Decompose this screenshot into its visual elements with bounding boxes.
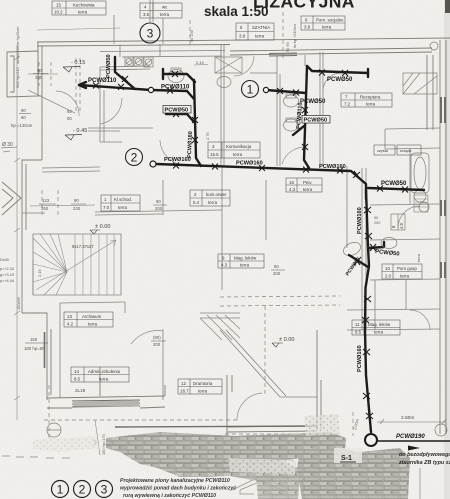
window bars <box>72 53 445 441</box>
stairs room box <box>33 234 121 295</box>
svg-text:200: 200 <box>153 342 161 347</box>
svg-text:do bezodpływowego: do bezodpływowego <box>399 452 450 458</box>
svg-text:terra: terra <box>208 200 218 205</box>
level marks <box>63 60 295 347</box>
svg-text:PCWØ50: PCWØ50 <box>327 77 353 83</box>
svg-text:9x17.37x27: 9x17.37x27 <box>72 244 94 249</box>
right outer wall <box>439 40 441 434</box>
wc/corridor verticals <box>220 44 222 165</box>
svg-text:123: 123 <box>42 198 50 203</box>
svg-text:terra: terra <box>400 274 410 279</box>
svg-text:terra: terra <box>99 377 109 382</box>
stairs treads <box>33 234 116 295</box>
svg-text:Receptura: Receptura <box>360 95 381 100</box>
svg-text:2.50m: 2.50m <box>401 415 414 421</box>
svg-text:urządz: urządz <box>400 149 411 153</box>
S-1 manhole <box>365 434 377 446</box>
svg-text:12: 12 <box>181 381 186 386</box>
svg-text:Dx90: Dx90 <box>0 258 9 262</box>
svg-text:(90): (90) <box>153 335 161 340</box>
door swing arcs <box>28 56 430 420</box>
riser circles <box>126 23 259 166</box>
svg-text:SZATNIA: SZATNIA <box>252 25 270 30</box>
svg-text:2: 2 <box>79 483 86 497</box>
svg-text:10.2: 10.2 <box>54 10 63 15</box>
svg-text:11: 11 <box>355 322 360 327</box>
svg-text:3.8: 3.8 <box>239 34 246 39</box>
svg-text:4.3: 4.3 <box>289 187 296 192</box>
svg-text:terra: terra <box>374 330 384 335</box>
svg-text:2.0: 2.0 <box>385 274 392 279</box>
svg-text:200: 200 <box>374 221 380 225</box>
svg-text:15: 15 <box>56 3 61 8</box>
svg-text:2.19: 2.19 <box>37 269 42 277</box>
svg-text:8.5: 8.5 <box>355 330 362 335</box>
svg-text:wzmocnienie hp20cm: wzmocnienie hp20cm <box>15 27 20 64</box>
svg-text:4.3: 4.3 <box>221 263 228 268</box>
left outside dimension chain <box>14 28 120 455</box>
bottom-right notes <box>398 452 450 466</box>
svg-text:lw kp +210cm: lw kp +210cm <box>292 24 297 48</box>
svg-text:14: 14 <box>74 369 79 374</box>
svg-text:Admin.szkolenia: Admin.szkolenia <box>88 369 121 374</box>
svg-text:13: 13 <box>67 314 72 319</box>
svg-text:150: 150 <box>30 337 38 342</box>
svg-text:PCWØ50: PCWØ50 <box>381 181 407 187</box>
svg-text:S-1: S-1 <box>341 455 352 462</box>
svg-text:15.5: 15.5 <box>210 152 219 157</box>
svg-text:terra: terra <box>240 263 250 268</box>
svg-text:wyprowadzić ponad dach budynku: wyprowadzić ponad dach budynku i zakończ… <box>120 486 236 492</box>
svg-text:Komunikacja: Komunikacja <box>226 144 252 149</box>
svg-text:2.19: 2.19 <box>196 60 205 65</box>
svg-text:3: 3 <box>101 483 108 497</box>
svg-text:hp =140cm: hp =140cm <box>11 123 33 128</box>
hatch boxes (shafts) <box>200 57 437 340</box>
svg-text:90: 90 <box>274 264 279 269</box>
svg-text:terra: terra <box>78 10 88 15</box>
svg-text:200: 200 <box>35 75 43 80</box>
svg-text:Pniv: Pniv <box>303 180 312 185</box>
svg-text:908 hp=210: 908 hp=210 <box>15 67 20 88</box>
svg-text:Kuchownia: Kuchownia <box>73 3 95 8</box>
svg-text:PCWØ160: PCWØ160 <box>187 131 194 158</box>
svg-text:180 hp=90: 180 hp=90 <box>24 346 45 351</box>
svg-text:Pom. socjalne: Pom. socjalne <box>316 18 344 23</box>
svg-text:kom.orwer: kom.orwer <box>206 192 227 197</box>
bottom mid rooms <box>220 330 280 397</box>
svg-text:2: 2 <box>131 151 138 165</box>
svg-text:2.75: 2.75 <box>205 132 210 140</box>
svg-text:1: 1 <box>247 83 254 97</box>
svg-text:PCWØ160: PCWØ160 <box>236 161 263 167</box>
svg-text:3.9: 3.9 <box>304 25 311 30</box>
right wing rooms <box>346 166 348 248</box>
svg-text:90: 90 <box>374 216 378 220</box>
svg-text:4.2: 4.2 <box>67 322 74 327</box>
pipe tick crosses <box>93 70 408 420</box>
svg-text:Kl.schod.: Kl.schod. <box>114 197 132 202</box>
svg-text:10: 10 <box>385 266 390 271</box>
svg-text:terra: terra <box>198 389 208 394</box>
svg-text:PCWØ110: PCWØ110 <box>88 78 117 84</box>
svg-text:terra: terra <box>118 205 128 210</box>
svg-text:3.5: 3.5 <box>143 12 150 17</box>
interior walls top-left block <box>99 90 101 142</box>
svg-text:8.5: 8.5 <box>74 377 81 382</box>
svg-text:czysta: czysta <box>377 149 389 153</box>
svg-text:Archiwum: Archiwum <box>82 314 102 319</box>
vestibule box top-left <box>7 51 38 97</box>
svg-text:terra: terra <box>366 102 376 107</box>
svg-text:Mag. leków: Mag. leków <box>368 322 391 327</box>
extra right-wing details <box>391 214 405 230</box>
svg-text:PCWØ50: PCWØ50 <box>165 108 189 114</box>
svg-text:terra: terra <box>416 253 421 262</box>
svg-text:Mag. leków: Mag. leków <box>234 256 257 261</box>
svg-text:- 0.45: - 0.45 <box>73 128 87 134</box>
dashed construction lines <box>39 12 353 440</box>
svg-text:PCWØ50: PCWØ50 <box>300 99 326 105</box>
left outer wall <box>37 42 39 96</box>
svg-text:7.0: 7.0 <box>103 205 110 210</box>
svg-text:60: 60 <box>21 115 26 120</box>
svg-text:90: 90 <box>74 198 79 203</box>
svg-text:terra: terra <box>255 34 265 39</box>
svg-text:3: 3 <box>147 27 154 41</box>
svg-text:92: 92 <box>67 109 72 114</box>
roof vent sketch bottom <box>232 476 290 494</box>
junction circles <box>148 87 153 92</box>
svg-text:rurą wywiewną i zakończyć PCWØ: rurą wywiewną i zakończyć PCWØ110 <box>123 493 216 499</box>
svg-text:90 150: 90 150 <box>189 29 194 42</box>
svg-text:2L19: 2L19 <box>75 388 86 393</box>
svg-text:terra: terra <box>322 25 332 30</box>
svg-text:skala 1:50: skala 1:50 <box>204 4 269 19</box>
svg-text:Pom gosp: Pom gosp <box>397 266 417 271</box>
svg-text:PCWØ50: PCWØ50 <box>106 54 112 78</box>
svg-text:terra: terra <box>233 152 243 157</box>
svg-text:zbiornika ZB typu szcz: zbiornika ZB typu szcz <box>398 460 450 466</box>
svg-text:00: 00 <box>67 116 72 121</box>
svg-text:PCWØ190: PCWØ190 <box>396 434 425 440</box>
svg-text:150 hp=170: 150 hp=170 <box>101 434 106 455</box>
bottom legend <box>52 481 113 498</box>
svg-text:± 0.00: ± 0.00 <box>279 337 295 343</box>
svg-text:PCWØ160: PCWØ160 <box>357 207 363 234</box>
svg-text:90 90: 90 90 <box>285 41 290 52</box>
svg-text:150x90: 150x90 <box>16 296 21 310</box>
middle horizontal walls <box>42 167 100 168</box>
svg-text:Dramtoria: Dramtoria <box>193 381 213 386</box>
svg-text:- 0.15: - 0.15 <box>71 60 85 66</box>
svg-text:90: 90 <box>156 199 161 204</box>
svg-text:p=+4.44: p=+4.44 <box>0 279 14 283</box>
svg-text:200: 200 <box>155 206 163 211</box>
svg-text:200: 200 <box>273 271 281 276</box>
svg-text:1: 1 <box>57 483 64 497</box>
svg-text:g=+3.19: g=+3.19 <box>0 273 14 277</box>
svg-text:90: 90 <box>21 108 26 113</box>
left big chevron arrow <box>2 182 21 215</box>
svg-text:7.2: 7.2 <box>344 102 351 107</box>
svg-text:± 0.00: ± 0.00 <box>95 224 111 230</box>
svg-text:terra: terra <box>303 187 313 192</box>
svg-text:5.4: 5.4 <box>193 200 200 205</box>
svg-text:250: 250 <box>41 206 49 211</box>
bottom walls <box>47 396 165 398</box>
svg-text:Projektowane piony kanalizacyj: Projektowane piony kanalizacyjne PCWØ110 <box>120 478 230 484</box>
top outer wall <box>37 38 450 42</box>
svg-text:15: 15 <box>289 180 294 185</box>
svg-text:terra: terra <box>88 322 98 327</box>
svg-text:90: 90 <box>37 68 42 73</box>
svg-text:PCWØ110: PCWØ110 <box>161 85 190 91</box>
svg-text:PCWØ160: PCWØ160 <box>357 345 363 372</box>
svg-text:terra: terra <box>160 12 170 17</box>
svg-text:wc: wc <box>162 5 168 10</box>
fixtures gray <box>47 42 447 437</box>
svg-text:230: 230 <box>73 206 81 211</box>
svg-text:PCWØ160: PCWØ160 <box>319 164 346 170</box>
svg-text:p=+2.34: p=+2.34 <box>0 267 14 271</box>
svg-text:PCWØ50: PCWØ50 <box>304 118 328 124</box>
svg-text:4.9: 4.9 <box>399 223 404 229</box>
svg-text:18.7: 18.7 <box>180 389 189 394</box>
title + scale <box>204 0 355 19</box>
